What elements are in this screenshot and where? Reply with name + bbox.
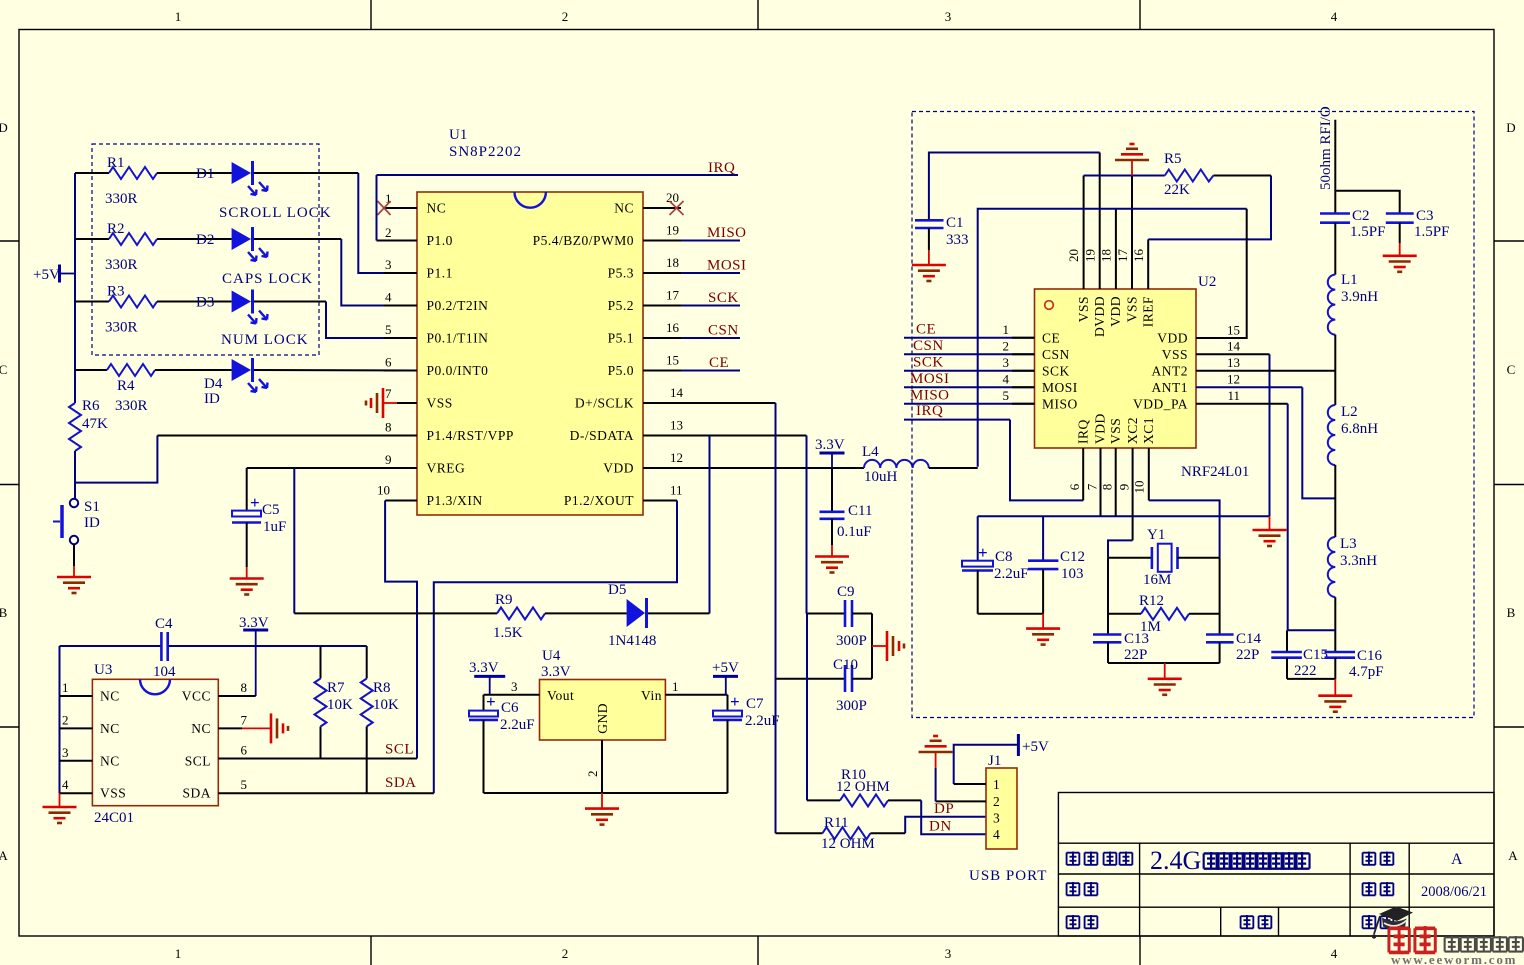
svg-text:XC2: XC2	[1125, 417, 1140, 444]
U3 pin names	[100, 689, 211, 801]
wire D5 to D- riser	[648, 612, 710, 614]
J1 pin 1 wire to +5V	[954, 745, 1019, 784]
svg-text:IRQ: IRQ	[708, 160, 735, 176]
svg-text:4: 4	[1331, 9, 1338, 24]
svg-text:333: 333	[946, 232, 969, 248]
wire C8 to C12 bottom	[978, 613, 1043, 615]
svg-text:9: 9	[385, 452, 392, 467]
wire 3.3V rail above U3	[60, 645, 367, 647]
svg-text:20: 20	[666, 190, 679, 205]
U4 pin 2 stub GND	[585, 740, 602, 793]
power port +5V left	[33, 265, 75, 284]
svg-text:S1: S1	[84, 499, 100, 515]
svg-text:3.3V: 3.3V	[815, 437, 845, 453]
U1 pin 20 stub with no-connect X	[643, 190, 684, 215]
wire S1 to ground	[73, 544, 75, 566]
capacitor C4	[153, 616, 176, 680]
svg-text:14: 14	[670, 385, 684, 400]
ground below C16	[1318, 679, 1352, 712]
svg-text:+5V: +5V	[712, 660, 739, 676]
wire U4 ground rail	[484, 792, 728, 794]
U1 pin names right column	[533, 201, 635, 509]
svg-text:R1: R1	[107, 155, 125, 171]
svg-text:ANT1: ANT1	[1152, 380, 1189, 395]
svg-text:USB PORT: USB PORT	[969, 868, 1047, 884]
svg-text:13: 13	[670, 418, 683, 433]
svg-text:17: 17	[666, 288, 680, 303]
capacitor C3	[1386, 208, 1450, 256]
dashed box LED indicators	[92, 144, 319, 355]
U2 pin 17 stub	[1115, 176, 1132, 290]
antenna 50ohm RFI/O line	[1318, 106, 1335, 213]
wire D3 to pin5 of U1	[254, 301, 326, 303]
svg-text:C11: C11	[848, 503, 872, 519]
svg-text:1: 1	[175, 946, 182, 961]
svg-text:P5.4/BZ0/PWM0: P5.4/BZ0/PWM0	[533, 233, 634, 248]
title text 2.4G无线键盘接收部分	[1150, 846, 1310, 875]
capacitor C16	[1325, 648, 1384, 680]
svg-text:P1.1: P1.1	[427, 266, 453, 281]
svg-text:103: 103	[1061, 566, 1084, 582]
wire C9/C10 common to ground	[871, 614, 873, 679]
svg-text:VSS: VSS	[1076, 296, 1091, 322]
svg-text:DP: DP	[934, 801, 954, 817]
title block label 产品名称	[1067, 852, 1133, 866]
svg-text:R2: R2	[107, 221, 125, 237]
wire net IRQ to U2 pin 6	[904, 403, 1083, 500]
svg-text:12 OHM: 12 OHM	[821, 836, 875, 852]
U2 pin 7 stub	[1085, 448, 1101, 516]
svg-text:R8: R8	[373, 680, 391, 696]
capacitor C6	[469, 692, 535, 793]
svg-text:4: 4	[62, 777, 69, 792]
power port 3.3V at U1 VDD	[815, 437, 845, 468]
svg-text:300P: 300P	[836, 698, 867, 714]
ground inverted above J1	[919, 736, 953, 752]
svg-text:300P: 300P	[836, 633, 867, 649]
capacitor C5	[232, 468, 286, 579]
wire R10 to J1 pin 4 DN	[921, 800, 986, 834]
resistor R11	[776, 815, 906, 852]
wire C15 to C16 bottom	[1287, 678, 1335, 680]
wire left vertical to U3 pins	[59, 646, 61, 793]
svg-text:3: 3	[1003, 355, 1010, 370]
svg-text:DVDD: DVDD	[1092, 296, 1107, 337]
svg-text:C15: C15	[1303, 647, 1328, 663]
svg-text:MISO: MISO	[1042, 396, 1078, 411]
svg-text:C3: C3	[1416, 208, 1434, 224]
svg-text:CSN: CSN	[913, 338, 944, 354]
U1 pin 6 stub	[384, 355, 417, 371]
svg-text:2.2uF: 2.2uF	[994, 566, 1029, 582]
svg-text:VSS: VSS	[100, 786, 126, 801]
svg-text:R7: R7	[327, 680, 345, 696]
svg-text:15: 15	[666, 353, 679, 368]
svg-text:330R: 330R	[105, 320, 138, 336]
svg-text:P5.2: P5.2	[608, 298, 634, 313]
resistor R5	[1164, 151, 1213, 198]
svg-text:16: 16	[666, 320, 680, 335]
svg-text:R6: R6	[82, 398, 100, 414]
wire VDD distribution row	[978, 209, 1247, 467]
svg-text:3: 3	[62, 745, 69, 760]
svg-text:1: 1	[62, 680, 69, 695]
svg-text:2: 2	[993, 794, 1000, 809]
svg-text:1: 1	[672, 679, 679, 694]
svg-text:10uH: 10uH	[864, 469, 898, 485]
IC U2 NRF24L01 body	[1035, 274, 1250, 480]
U2 top pin names rotated	[1076, 296, 1156, 337]
svg-text:SCK: SCK	[913, 354, 944, 370]
svg-text:6: 6	[241, 743, 248, 758]
svg-text:L4: L4	[862, 444, 879, 460]
wire R4 to D4	[155, 369, 232, 371]
U3 pin 8 stub to 3.3V	[218, 680, 255, 696]
svg-text:C4: C4	[155, 616, 173, 632]
svg-text:Y1: Y1	[1147, 527, 1165, 543]
svg-text:4: 4	[1331, 946, 1338, 961]
svg-text:NC: NC	[427, 201, 447, 216]
resistor R8	[361, 646, 399, 793]
svg-text:2: 2	[385, 225, 392, 240]
U1 pin 10 stub	[377, 483, 417, 501]
svg-text:2008/06/21: 2008/06/21	[1421, 884, 1487, 900]
svg-text:SCL: SCL	[185, 754, 211, 769]
capacitor C14	[1206, 558, 1262, 663]
power port +5V at J1	[1018, 734, 1049, 756]
svg-text:10: 10	[1132, 481, 1147, 494]
svg-text:IRQ: IRQ	[916, 403, 943, 419]
svg-text:C14: C14	[1236, 631, 1262, 647]
svg-text:MISO: MISO	[910, 387, 950, 403]
capacitor C1	[915, 153, 1100, 266]
svg-text:2.2uF: 2.2uF	[500, 717, 535, 733]
svg-text:10K: 10K	[373, 697, 399, 713]
svg-text:C16: C16	[1357, 648, 1383, 664]
ground sideways at U1 pin 7	[366, 388, 397, 418]
svg-text:8: 8	[241, 680, 248, 695]
svg-text:R3: R3	[107, 284, 125, 300]
svg-text:16: 16	[1131, 249, 1146, 263]
svg-text:U4: U4	[542, 648, 561, 664]
svg-text:NC: NC	[100, 689, 120, 704]
inductor L4	[862, 444, 929, 485]
svg-text:VSS: VSS	[1125, 296, 1140, 322]
dashed box RF section	[912, 112, 1474, 718]
svg-text:3.3V: 3.3V	[469, 660, 499, 676]
svg-text:NUM LOCK: NUM LOCK	[221, 332, 309, 348]
resistor R7	[315, 646, 354, 759]
svg-text:XC1: XC1	[1141, 417, 1156, 444]
svg-text:VDD: VDD	[1157, 330, 1188, 345]
svg-text:19: 19	[666, 223, 679, 238]
U1 pin 16 stub with net wire and label CSN	[643, 320, 740, 339]
svg-text:222: 222	[1294, 663, 1317, 679]
svg-text:3: 3	[511, 679, 518, 694]
U2 pin 9 stub and XC2 wire	[1108, 448, 1133, 558]
svg-text:VSS: VSS	[427, 396, 453, 411]
svg-text:D+/SCLK: D+/SCLK	[575, 396, 634, 411]
capacitor C10	[776, 657, 873, 714]
U2 pin 11 stub VDD_PA wire	[1196, 388, 1288, 631]
wire L1 to L2 with ANT2 junction	[1334, 335, 1336, 405]
U1 pin 15 stub with net wire and label CE	[643, 353, 740, 372]
svg-text:VDD: VDD	[603, 461, 634, 476]
svg-text:CE: CE	[916, 321, 936, 337]
svg-text:VSS: VSS	[1108, 418, 1123, 444]
svg-text:P0.0/INT0: P0.0/INT0	[427, 363, 489, 378]
svg-text:1: 1	[1003, 322, 1010, 337]
svg-text:SCL: SCL	[385, 742, 414, 758]
svg-text:2: 2	[1003, 338, 1010, 353]
svg-text:GND: GND	[595, 703, 610, 734]
U2 pin 16 stub	[1131, 239, 1148, 289]
svg-text:6: 6	[1067, 483, 1082, 490]
svg-text:2: 2	[62, 712, 69, 727]
wire L3 down to C16	[1334, 597, 1336, 652]
svg-text:4: 4	[993, 827, 1000, 842]
svg-text:2: 2	[562, 9, 569, 24]
U1 pin 18 stub with net wire and label MOSI	[643, 255, 747, 274]
svg-text:R9: R9	[495, 592, 513, 608]
svg-text:P5.3: P5.3	[608, 266, 634, 281]
svg-text:18: 18	[1099, 249, 1114, 262]
svg-text:D4: D4	[204, 376, 223, 392]
U2 pin 8 stub	[1100, 448, 1116, 516]
svg-text:7: 7	[385, 386, 392, 401]
U2 right pin names	[1133, 330, 1188, 411]
U2 pin 13 stub ANT2 wire	[1196, 355, 1335, 371]
U2 pin 14 stub and wire to rail	[1196, 339, 1270, 517]
svg-text:C13: C13	[1124, 631, 1149, 647]
U3 pin 5 stub and SDA wire	[218, 777, 433, 793]
U1 pin 8 stub and wire to S1 node	[157, 420, 417, 436]
ground sideways right of C9/C10	[872, 631, 904, 661]
svg-text:SN8P2202: SN8P2202	[449, 144, 522, 160]
wire R11 to J1 pin 3 DP	[905, 817, 986, 833]
svg-text:1uF: 1uF	[263, 519, 286, 535]
svg-text:13: 13	[1227, 355, 1240, 370]
svg-text:12 OHM: 12 OHM	[836, 779, 890, 795]
svg-text:D5: D5	[608, 582, 626, 598]
svg-text:U2: U2	[1198, 274, 1216, 290]
wire VREG node to R9 row	[293, 468, 295, 613]
svg-text:CSN: CSN	[1042, 347, 1070, 362]
svg-text:8: 8	[385, 420, 392, 435]
ground below U4	[585, 793, 619, 825]
power port 3.3V above U3	[239, 615, 269, 696]
wire VSS row with R5	[1084, 175, 1271, 177]
svg-text:4.7pF: 4.7pF	[1349, 664, 1384, 680]
inductor L1	[1328, 272, 1378, 335]
wire R5 to IREF pin 16	[1148, 176, 1271, 240]
wire D+ riser down	[775, 403, 777, 833]
wire C2 top to C3	[1335, 191, 1399, 214]
wire R6/S1 node to pin8 jog	[75, 436, 157, 483]
svg-text:C9: C9	[837, 584, 855, 600]
svg-text:DN: DN	[929, 819, 952, 835]
svg-text:D3: D3	[196, 295, 214, 311]
svg-text:1.5PF: 1.5PF	[1414, 224, 1449, 240]
wire L4 to U2 rail riser	[929, 467, 978, 469]
U1 pin 19 stub with net wire and label MISO	[643, 223, 747, 242]
svg-text:104: 104	[153, 664, 176, 680]
svg-text:P0.2/T2IN: P0.2/T2IN	[427, 298, 489, 313]
U2 pin 18 stub	[1099, 209, 1116, 289]
svg-text:P1.4/RST/VPP: P1.4/RST/VPP	[427, 428, 514, 443]
watermark 虫虫 red characters	[1389, 926, 1435, 954]
svg-text:16M: 16M	[1143, 572, 1171, 588]
wire R1 to D1	[157, 172, 232, 174]
ground below C3	[1383, 256, 1417, 272]
svg-text:5: 5	[241, 777, 248, 792]
svg-text:10: 10	[377, 483, 390, 498]
svg-text:SDA: SDA	[385, 775, 417, 791]
ground inverted at U2 pin 17	[1115, 144, 1149, 176]
svg-text:5: 5	[1003, 388, 1010, 403]
svg-text:L3: L3	[1340, 536, 1357, 552]
wire D1 to pin3 of U1	[254, 172, 358, 174]
U3 pin 2 stub	[60, 712, 93, 728]
svg-text:NRF24L01: NRF24L01	[1181, 464, 1249, 480]
wire +5V vertical bus	[74, 173, 76, 403]
svg-text:C: C	[0, 362, 7, 377]
wire R3 to D3	[157, 301, 232, 303]
svg-text:15: 15	[1227, 323, 1240, 338]
svg-text:6: 6	[385, 355, 392, 370]
svg-text:MISO: MISO	[707, 225, 747, 241]
svg-text:330R: 330R	[105, 257, 138, 273]
power port 3.3V at U4 Vout	[469, 660, 505, 695]
svg-text:P5.0: P5.0	[608, 363, 634, 378]
svg-text:C10: C10	[833, 657, 858, 673]
svg-text:1.5PF: 1.5PF	[1350, 224, 1385, 240]
wire VDD to pin 15	[1196, 209, 1247, 338]
svg-text:+: +	[486, 692, 496, 711]
svg-text:1N4148: 1N4148	[608, 633, 656, 649]
svg-text:3: 3	[945, 946, 952, 961]
svg-text:20: 20	[1066, 249, 1081, 262]
wire VSS/VDD rail under U2	[978, 515, 1270, 517]
svg-text:1: 1	[993, 777, 1000, 792]
svg-text:8: 8	[1100, 484, 1115, 491]
svg-text:+: +	[250, 493, 260, 512]
U1 pin 17 stub with net wire and label SCK	[643, 288, 740, 307]
capacitor C11	[820, 468, 873, 557]
svg-text:14: 14	[1227, 339, 1241, 354]
U2 pin 12 stub ANT1 wire	[1196, 371, 1335, 498]
svg-text:A: A	[1508, 848, 1518, 863]
svg-text:D1: D1	[196, 166, 214, 182]
capacitor C15	[1271, 630, 1328, 679]
capacitor C8	[962, 516, 1029, 614]
svg-text:NC: NC	[191, 721, 211, 736]
resistor R2	[75, 221, 157, 273]
svg-text:22P: 22P	[1124, 647, 1147, 663]
svg-text:L2: L2	[1341, 404, 1358, 420]
ground below rail right end	[1253, 516, 1287, 546]
svg-text:A: A	[1451, 851, 1463, 868]
svg-text:ID: ID	[84, 515, 100, 531]
svg-text:4: 4	[385, 290, 392, 305]
inductor L2	[1328, 404, 1378, 465]
U1 pin 5 stub	[384, 322, 417, 338]
svg-text:3.9nH: 3.9nH	[1341, 289, 1378, 305]
svg-text:11: 11	[670, 483, 683, 498]
svg-text:VDD: VDD	[1108, 296, 1123, 327]
U1 pin 7 stub	[385, 386, 417, 403]
U3 pin 1 stub	[60, 680, 93, 696]
svg-text:3: 3	[993, 810, 1000, 825]
resistor R1	[75, 155, 157, 207]
U2 bottom pin names rotated	[1076, 413, 1157, 444]
ground below C5	[230, 579, 264, 595]
svg-text:MOSI: MOSI	[910, 371, 950, 387]
svg-text:7: 7	[241, 712, 248, 727]
svg-text:7: 7	[1085, 483, 1100, 490]
svg-text:C1: C1	[946, 215, 964, 231]
svg-text:Vin: Vin	[641, 688, 662, 703]
svg-text:11: 11	[1227, 388, 1240, 403]
svg-text:+: +	[978, 543, 988, 562]
wire VDD_PA row to antenna line	[1288, 629, 1336, 631]
svg-text:R4: R4	[117, 378, 135, 394]
svg-text:D-/SDATA: D-/SDATA	[570, 428, 634, 443]
title block label 日期 and date 2008/06/21	[1363, 882, 1487, 900]
wire net IRQ top	[377, 174, 739, 176]
svg-text:D: D	[0, 120, 8, 135]
U2 left pin names	[1042, 330, 1078, 411]
svg-text:SCROLL LOCK: SCROLL LOCK	[219, 205, 332, 221]
svg-text:P1.3/XIN: P1.3/XIN	[427, 493, 483, 508]
svg-text:C12: C12	[1060, 549, 1085, 565]
U3 pin 3 stub	[60, 745, 93, 761]
wire D- riser down	[806, 436, 808, 614]
svg-text:U1: U1	[449, 127, 467, 143]
svg-text:MOSI: MOSI	[707, 258, 747, 274]
IC U1 SN8P2202 body	[417, 127, 643, 515]
svg-text:NC: NC	[100, 721, 120, 736]
U1 pin 11 stub	[643, 483, 683, 501]
capacitor C7	[713, 692, 780, 793]
svg-text:B: B	[1507, 605, 1516, 620]
svg-text:24C01: 24C01	[94, 810, 134, 826]
LED D3	[196, 290, 268, 324]
resistor R9	[294, 592, 545, 641]
svg-text:3: 3	[945, 9, 952, 24]
svg-text:A: A	[0, 848, 8, 863]
svg-text:R12: R12	[1139, 593, 1164, 609]
capacitor C13	[1093, 558, 1149, 663]
svg-text:330R: 330R	[105, 191, 138, 207]
svg-text:SCK: SCK	[1042, 363, 1070, 378]
U1 pin 2 stub	[377, 225, 418, 241]
title block label 绘图	[1363, 915, 1394, 929]
title block label 审核	[1241, 915, 1272, 929]
svg-text:C2: C2	[1352, 208, 1370, 224]
resistor R6	[69, 398, 108, 451]
svg-text:3.3nH: 3.3nH	[1340, 553, 1377, 569]
ground below U3 VSS	[43, 793, 77, 823]
U2 pin 19 stub	[1083, 153, 1100, 290]
ground below crystal loop	[1148, 663, 1182, 695]
U3 pin 6 stub and SCL wire	[218, 743, 417, 759]
svg-text:19: 19	[1083, 249, 1098, 262]
svg-text:D2: D2	[196, 232, 214, 248]
ground below S1	[57, 577, 91, 593]
capacitor C12	[1028, 516, 1085, 614]
svg-text:R11: R11	[824, 815, 848, 831]
